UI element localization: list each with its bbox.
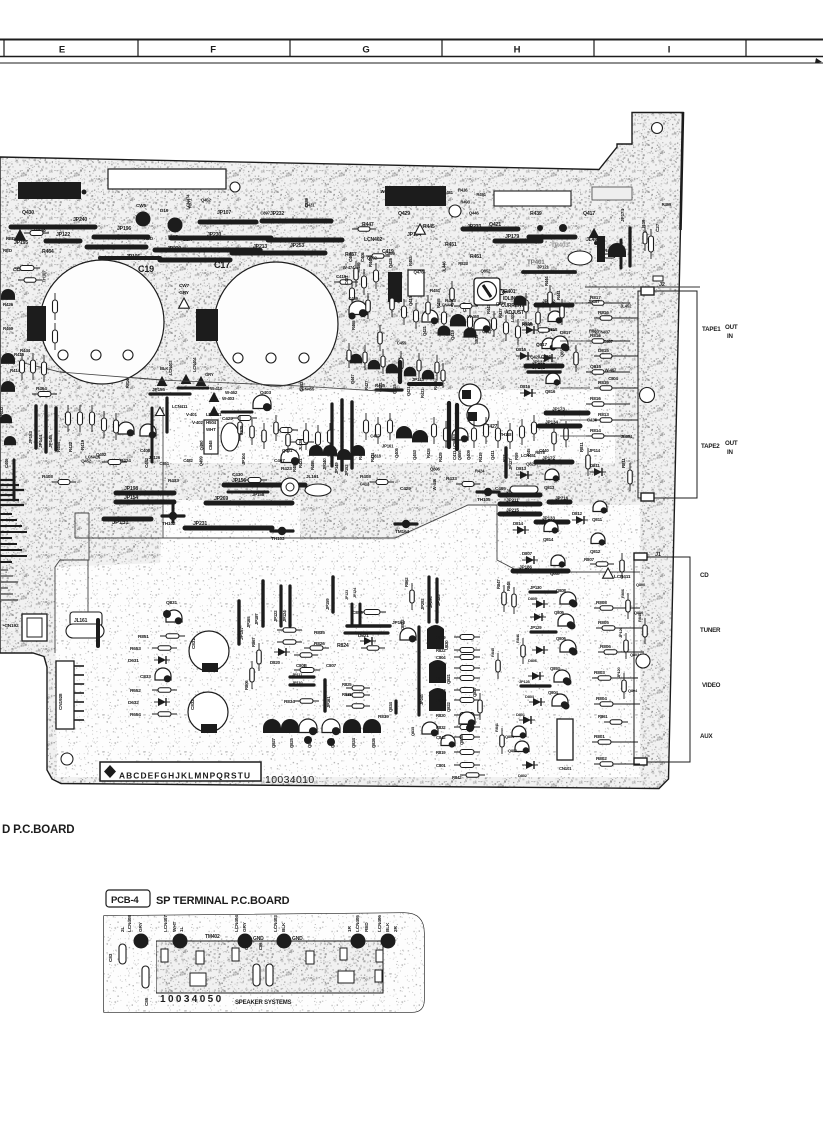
svg-text:R453: R453 — [408, 256, 413, 266]
svg-text:JP165: JP165 — [246, 616, 251, 628]
svg-text:R454: R454 — [56, 441, 61, 452]
svg-text:W-403: W-403 — [222, 396, 235, 401]
svg-text:Q804: Q804 — [548, 690, 559, 695]
svg-text:R444: R444 — [544, 276, 549, 286]
svg-text:Q429: Q429 — [398, 211, 410, 217]
svg-text:2L: 2L — [120, 927, 126, 932]
svg-text:V-401: V-401 — [186, 412, 197, 417]
svg-text:C489: C489 — [304, 197, 309, 207]
svg-text:D817: D817 — [560, 330, 571, 336]
svg-text:C430: C430 — [232, 472, 243, 478]
svg-text:JP124: JP124 — [353, 587, 357, 598]
svg-text:R59: R59 — [514, 452, 519, 460]
svg-text:JP121: JP121 — [537, 265, 549, 270]
svg-text:R849: R849 — [522, 322, 533, 328]
svg-text:1 0 0 3 4 0 5 0: 1 0 0 3 4 0 5 0 — [160, 994, 222, 1005]
svg-text:R804: R804 — [596, 696, 607, 702]
svg-text:JP174: JP174 — [620, 209, 626, 222]
svg-text:Q813: Q813 — [544, 485, 555, 490]
svg-text:ADJUST: ADJUST — [505, 310, 524, 316]
svg-text:Q836: Q836 — [459, 734, 464, 745]
svg-text:CW5: CW5 — [136, 203, 147, 209]
svg-text:JP153: JP153 — [28, 431, 34, 444]
svg-text:C467: C467 — [603, 339, 613, 344]
svg-text:C482: C482 — [183, 458, 193, 463]
svg-text:Q431: Q431 — [396, 292, 401, 303]
svg-text:VIDEO: VIDEO — [702, 682, 721, 689]
svg-text:RED: RED — [364, 922, 370, 932]
svg-text:W-446: W-446 — [432, 478, 437, 490]
svg-text:Q827: Q827 — [271, 737, 276, 748]
svg-text:JP155: JP155 — [152, 387, 165, 393]
svg-text:R811: R811 — [621, 458, 626, 468]
svg-text:D812: D812 — [572, 511, 583, 516]
svg-text:10034010: 10034010 — [265, 774, 315, 786]
svg-text:R829: R829 — [436, 635, 446, 640]
svg-text:C851: C851 — [159, 461, 169, 466]
svg-text:C429: C429 — [400, 486, 411, 492]
svg-text:LCN455: LCN455 — [299, 386, 315, 391]
svg-text:PCB-4: PCB-4 — [111, 895, 139, 906]
svg-text:IN: IN — [727, 333, 734, 340]
svg-text:LCN411: LCN411 — [172, 404, 188, 409]
svg-text:R803: R803 — [594, 670, 605, 676]
svg-text:Q446: Q446 — [469, 210, 480, 215]
svg-text:D805: D805 — [528, 596, 538, 601]
svg-text:Q837: Q837 — [472, 686, 477, 697]
svg-text:D P.C.BOARD: D P.C.BOARD — [2, 824, 74, 836]
svg-text:R491: R491 — [476, 192, 486, 197]
svg-text:C879: C879 — [239, 425, 244, 435]
svg-text:R839: R839 — [378, 714, 389, 720]
svg-text:R825: R825 — [342, 682, 352, 687]
svg-text:C897: C897 — [260, 211, 270, 216]
svg-text:Q415: Q415 — [408, 295, 413, 306]
svg-text:R437: R437 — [498, 308, 503, 318]
svg-text:R838: R838 — [342, 692, 352, 697]
svg-text:C446: C446 — [4, 458, 9, 468]
svg-text:H504: H504 — [206, 420, 217, 425]
svg-text:JL446: JL446 — [441, 261, 446, 273]
svg-text:C804: C804 — [436, 655, 446, 660]
svg-text:C405: C405 — [360, 252, 365, 262]
svg-text:Q405: Q405 — [394, 447, 399, 458]
svg-text:R823: R823 — [458, 261, 468, 266]
svg-text:Q490: Q490 — [199, 440, 204, 451]
svg-text:LCN404: LCN404 — [192, 357, 197, 372]
svg-text:JP126: JP126 — [618, 626, 623, 638]
svg-text:CN101: CN101 — [559, 766, 572, 771]
svg-text:R433: R433 — [446, 476, 457, 482]
svg-text:Q835: Q835 — [410, 726, 415, 736]
svg-text:AUX: AUX — [700, 733, 714, 740]
svg-text:R883: R883 — [589, 328, 599, 333]
svg-text:R808: R808 — [596, 600, 607, 606]
svg-text:Q826: Q826 — [371, 737, 376, 748]
svg-text:GND: GND — [253, 936, 264, 942]
svg-text:GND: GND — [292, 936, 303, 942]
svg-text:R419: R419 — [478, 452, 483, 462]
svg-text:JP187: JP187 — [254, 613, 259, 625]
svg-text:Q421: Q421 — [489, 222, 501, 228]
svg-text:JP152: JP152 — [344, 464, 349, 476]
svg-text:Q803: Q803 — [630, 652, 640, 657]
svg-text:Q430: Q430 — [22, 210, 34, 216]
svg-text:C429: C429 — [222, 416, 233, 422]
svg-text:D814: D814 — [513, 521, 524, 526]
svg-text:JP240: JP240 — [73, 217, 87, 223]
svg-text:D632: D632 — [128, 700, 139, 706]
svg-text:R861: R861 — [598, 714, 608, 719]
svg-text:Q817: Q817 — [536, 342, 547, 348]
svg-text:JP149: JP149 — [334, 462, 339, 474]
svg-text:C848: C848 — [208, 440, 213, 450]
svg-text:JP292: JP292 — [420, 598, 425, 610]
svg-text:JP173: JP173 — [552, 407, 565, 413]
svg-text:R654: R654 — [130, 712, 141, 718]
svg-text:R422: R422 — [68, 441, 73, 452]
svg-text:TM164: TM164 — [395, 529, 409, 535]
svg-text:LCN402: LCN402 — [364, 237, 382, 243]
svg-text:Q806: Q806 — [556, 636, 567, 641]
svg-text:Q401: Q401 — [282, 448, 293, 453]
svg-text:Q821: Q821 — [446, 673, 451, 684]
svg-text:GRY: GRY — [138, 921, 144, 932]
svg-text:Q852: Q852 — [480, 269, 491, 274]
svg-text:F: F — [210, 45, 216, 56]
svg-text:GRY: GRY — [205, 372, 214, 377]
svg-text:GRY: GRY — [242, 921, 248, 932]
svg-text:R814: R814 — [125, 378, 130, 388]
svg-text:C27: C27 — [655, 223, 661, 232]
svg-text:R429: R429 — [438, 452, 443, 462]
svg-text:C459: C459 — [348, 296, 358, 301]
svg-text:TAPE2: TAPE2 — [701, 443, 720, 450]
svg-text:CD: CD — [700, 572, 709, 579]
svg-text:Q808: Q808 — [556, 588, 567, 593]
svg-text:JP215: JP215 — [506, 508, 519, 514]
svg-text:R805: R805 — [598, 620, 609, 626]
svg-text:R435: R435 — [375, 383, 386, 388]
svg-text:Q822: Q822 — [446, 701, 451, 712]
svg-text:JP144: JP144 — [38, 435, 44, 448]
svg-text:C899: C899 — [385, 251, 395, 256]
svg-text:R819: R819 — [436, 750, 446, 755]
svg-text:R412: R412 — [3, 358, 14, 363]
svg-text:V-402: V-402 — [192, 420, 203, 425]
svg-text:D806: D806 — [528, 658, 538, 663]
svg-text:R460: R460 — [3, 326, 14, 331]
svg-text:R845: R845 — [490, 647, 495, 657]
svg-text:Q818: Q818 — [371, 453, 382, 458]
svg-text:TM402: TM402 — [205, 934, 220, 940]
svg-text:C495: C495 — [495, 486, 506, 492]
svg-text:Q419: Q419 — [450, 329, 455, 340]
svg-text:C842: C842 — [436, 735, 446, 740]
svg-text:R867: R867 — [251, 637, 256, 647]
svg-text:JP211: JP211 — [506, 498, 519, 504]
svg-text:R821: R821 — [436, 676, 446, 681]
svg-text:R816: R816 — [590, 396, 601, 402]
svg-text:D816: D816 — [520, 384, 531, 389]
svg-text:Q831: Q831 — [166, 600, 177, 606]
svg-text:R842: R842 — [452, 775, 462, 780]
svg-text:R493: R493 — [460, 200, 470, 205]
svg-text:TH118: TH118 — [500, 432, 512, 437]
svg-text:JP230: JP230 — [207, 232, 221, 238]
svg-text:JP129: JP129 — [530, 625, 542, 630]
svg-text:419: 419 — [599, 251, 604, 258]
svg-text:D631: D631 — [128, 658, 139, 664]
svg-text:JP161: JP161 — [326, 696, 331, 708]
svg-text:Q825: Q825 — [289, 737, 294, 748]
svg-text:JP104: JP104 — [241, 453, 246, 465]
svg-text:LCN416: LCN416 — [85, 454, 101, 459]
svg-text:R806: R806 — [620, 588, 625, 598]
svg-text:JL161: JL161 — [74, 618, 88, 624]
svg-text:JP124: JP124 — [282, 610, 287, 622]
svg-text:R419: R419 — [80, 439, 85, 450]
svg-text:JL464: JL464 — [621, 434, 633, 439]
svg-text:D811: D811 — [590, 463, 600, 468]
svg-text:C803: C803 — [436, 688, 446, 693]
svg-text:SPEAKER SYSTEMS: SPEAKER SYSTEMS — [235, 1000, 292, 1006]
svg-text:R851: R851 — [138, 634, 149, 640]
svg-text:R403: R403 — [360, 474, 371, 480]
svg-text:C819: C819 — [352, 610, 363, 616]
svg-text:C895: C895 — [545, 303, 555, 308]
svg-text:C459: C459 — [397, 340, 407, 345]
svg-text:TH103: TH103 — [271, 536, 285, 542]
svg-text:LCN408: LCN408 — [127, 915, 133, 932]
svg-text:OUT: OUT — [725, 440, 738, 447]
svg-text:C801: C801 — [436, 763, 446, 768]
svg-text:JP229: JP229 — [167, 246, 181, 252]
svg-text:LCN405: LCN405 — [355, 915, 361, 932]
svg-text:Q877: Q877 — [496, 301, 507, 306]
svg-text:JP154: JP154 — [124, 495, 138, 501]
svg-text:C424: C424 — [587, 418, 597, 423]
svg-text:JL428: JL428 — [298, 439, 303, 451]
svg-text:LCN403: LCN403 — [168, 360, 173, 375]
svg-text:R830: R830 — [436, 666, 446, 671]
svg-text:TH105: TH105 — [477, 497, 491, 503]
svg-text:R451: R451 — [470, 254, 482, 260]
svg-text:H: H — [514, 45, 521, 56]
svg-text:W-421: W-421 — [380, 189, 392, 194]
svg-text:R847: R847 — [496, 579, 501, 589]
svg-text:G: G — [362, 45, 369, 56]
svg-text:OB32: OB32 — [400, 619, 405, 630]
svg-text:C481: C481 — [443, 190, 453, 195]
svg-text:JP195: JP195 — [14, 240, 28, 246]
svg-text:J1: J1 — [655, 552, 661, 558]
svg-text:R807: R807 — [584, 557, 595, 562]
svg-text:Q421: Q421 — [422, 325, 427, 336]
svg-text:R465: R465 — [351, 320, 356, 330]
svg-text:Q425: Q425 — [388, 257, 393, 268]
svg-text:Q834: Q834 — [388, 701, 393, 712]
svg-text:OUT: OUT — [725, 324, 738, 331]
svg-text:Q826: Q826 — [526, 462, 537, 467]
svg-text:JP172: JP172 — [542, 456, 555, 462]
svg-text:JP134: JP134 — [545, 420, 558, 426]
svg-text:R822: R822 — [436, 648, 446, 653]
svg-text:Q420: Q420 — [530, 354, 541, 359]
svg-text:TH107: TH107 — [41, 270, 46, 283]
svg-text:Q403: Q403 — [260, 390, 271, 396]
svg-text:JP122: JP122 — [273, 610, 278, 622]
svg-text:W-460: W-460 — [467, 314, 479, 319]
svg-text:2R: 2R — [393, 926, 399, 932]
svg-text:R445: R445 — [423, 224, 435, 230]
svg-text:C467: C467 — [274, 458, 285, 464]
svg-text:SP TERMINAL P.C.BOARD: SP TERMINAL P.C.BOARD — [156, 895, 290, 907]
svg-text:Q811: Q811 — [592, 517, 603, 522]
svg-text:D821: D821 — [358, 633, 369, 639]
svg-text:LCN411: LCN411 — [614, 574, 631, 580]
svg-text:JP?16: JP?16 — [555, 496, 569, 502]
svg-text:JP156: JP156 — [232, 478, 246, 484]
svg-text:R423: R423 — [281, 466, 292, 472]
svg-text:Q499: Q499 — [199, 456, 204, 467]
svg-text:R416: R416 — [458, 187, 468, 192]
svg-text:CW7: CW7 — [179, 283, 190, 289]
svg-text:E: E — [59, 45, 65, 56]
svg-text:R444: R444 — [20, 348, 31, 353]
svg-text:JP120: JP120 — [616, 666, 621, 678]
svg-text:Q851: Q851 — [560, 346, 565, 357]
svg-text:LCN484: LCN484 — [452, 434, 457, 450]
svg-text:IN: IN — [727, 449, 734, 456]
svg-text:C421: C421 — [344, 275, 349, 285]
svg-text:R652: R652 — [130, 688, 141, 694]
svg-text:D815: D815 — [598, 348, 609, 354]
svg-text:R820: R820 — [436, 713, 446, 718]
svg-text:JL161: JL161 — [306, 474, 319, 480]
svg-text:Q452: Q452 — [201, 197, 212, 202]
svg-text:LCN404: LCN404 — [234, 915, 240, 932]
svg-text:JP133: JP133 — [542, 516, 555, 522]
svg-text:R424: R424 — [475, 469, 485, 474]
svg-text:JP123: JP123 — [345, 590, 349, 600]
svg-text:JP107: JP107 — [217, 210, 231, 216]
svg-text:JP243: JP243 — [419, 693, 424, 705]
svg-text:JP113: JP113 — [412, 377, 424, 382]
svg-text:R834: R834 — [284, 699, 295, 705]
svg-text:R871: R871 — [187, 198, 192, 208]
svg-text:JP126: JP126 — [148, 455, 160, 460]
svg-text:R424: R424 — [120, 458, 131, 464]
svg-text:I: I — [668, 45, 670, 56]
svg-text:C831: C831 — [191, 638, 197, 649]
svg-text:C440: C440 — [539, 448, 549, 453]
svg-text:R431: R431 — [420, 388, 425, 398]
svg-text:JP198: JP198 — [124, 486, 138, 492]
svg-text:R433: R433 — [168, 478, 179, 484]
svg-text:Q815: Q815 — [590, 364, 601, 370]
svg-text:JP159: JP159 — [325, 598, 330, 610]
svg-text:LCN447: LCN447 — [439, 302, 455, 307]
svg-text:R835: R835 — [314, 630, 325, 636]
svg-text:R802: R802 — [596, 756, 607, 762]
svg-text:BLK: BLK — [281, 922, 287, 932]
svg-text:C832: C832 — [190, 699, 196, 710]
svg-text:C403: C403 — [348, 252, 353, 262]
svg-text:D815: D815 — [516, 347, 527, 352]
svg-text:1L: 1L — [179, 927, 185, 932]
svg-text:R426: R426 — [3, 302, 14, 307]
svg-text:R816: R816 — [598, 310, 609, 316]
svg-text:C83: C83 — [108, 953, 114, 962]
svg-text:JP151: JP151 — [112, 520, 129, 526]
svg-text:JP128: JP128 — [519, 679, 531, 684]
svg-text:R499: R499 — [662, 202, 672, 207]
svg-text:TP403: TP403 — [551, 242, 569, 249]
svg-text:CN1928: CN1928 — [58, 693, 64, 710]
svg-text:Q812: Q812 — [590, 549, 601, 554]
svg-text:R464: R464 — [36, 386, 47, 392]
svg-text:•CN192: •CN192 — [3, 623, 19, 629]
svg-text:R813: R813 — [598, 412, 609, 418]
svg-text:C84: C84 — [244, 942, 249, 950]
svg-text:JP145: JP145 — [48, 435, 54, 448]
svg-text:C413: C413 — [360, 482, 370, 487]
svg-text:R806: R806 — [600, 644, 611, 650]
svg-text:RED: RED — [6, 236, 16, 241]
svg-text:JP233: JP233 — [467, 224, 481, 230]
svg-text:RED: RED — [3, 248, 13, 253]
svg-text:R451: R451 — [445, 242, 457, 248]
svg-text:C837: C837 — [482, 329, 492, 334]
svg-text:JP213: JP213 — [253, 244, 267, 250]
svg-text:W-410: W-410 — [210, 386, 223, 391]
svg-text:Q453: Q453 — [412, 449, 417, 460]
svg-text:Q800: Q800 — [636, 582, 646, 587]
svg-text:R427: R427 — [364, 380, 369, 390]
svg-text:R432: R432 — [0, 406, 4, 416]
svg-text:JP140: JP140 — [322, 458, 327, 470]
svg-text:LCN403: LCN403 — [273, 915, 279, 932]
svg-text:R814: R814 — [590, 428, 601, 434]
svg-text:JP192: JP192 — [532, 365, 545, 371]
svg-text:JP187: JP187 — [588, 299, 600, 304]
svg-text:JL452: JL452 — [620, 303, 632, 308]
svg-text:W-474: W-474 — [343, 265, 355, 270]
svg-text:R489: R489 — [292, 462, 297, 472]
svg-text:C408: C408 — [140, 448, 151, 453]
svg-text:Q409: Q409 — [466, 449, 471, 460]
svg-text:C19: C19 — [138, 264, 154, 274]
svg-text:R425: R425 — [426, 448, 431, 458]
svg-text:JP114: JP114 — [589, 448, 601, 453]
svg-text:TUNER: TUNER — [700, 627, 721, 634]
svg-text:D802: D802 — [518, 773, 528, 778]
svg-text:Q859: Q859 — [457, 450, 462, 461]
svg-text:R846: R846 — [515, 633, 520, 643]
svg-text:C833: C833 — [140, 674, 151, 680]
svg-text:JP157: JP157 — [239, 627, 245, 640]
svg-text:Q824: Q824 — [351, 737, 356, 748]
svg-text:JP186: JP186 — [519, 565, 532, 571]
svg-text:LCN407: LCN407 — [163, 915, 169, 932]
svg-text:JP131: JP131 — [532, 360, 545, 366]
svg-text:JP110: JP110 — [292, 680, 303, 685]
svg-text:D19: D19 — [160, 208, 169, 214]
svg-text:Q806: Q806 — [430, 466, 441, 471]
svg-text:Q892: Q892 — [367, 256, 378, 261]
svg-text:D801: D801 — [516, 712, 526, 717]
